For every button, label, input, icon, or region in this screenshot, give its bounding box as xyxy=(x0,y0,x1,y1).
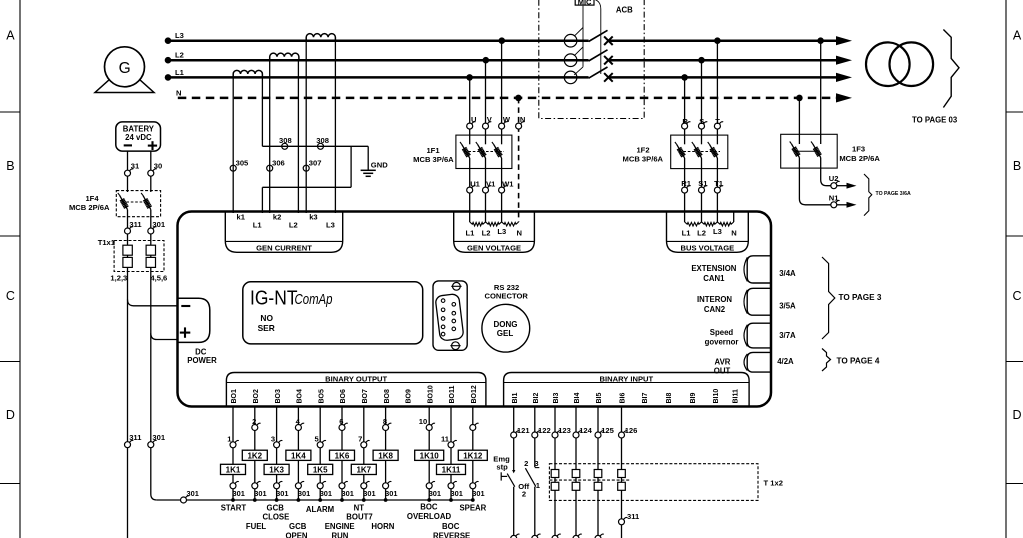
terminal 126 xyxy=(619,426,638,438)
junction on 301 bus at BO10 xyxy=(427,498,431,502)
svg-text:8: 8 xyxy=(383,417,387,426)
terminal 301 under 1K10 xyxy=(426,481,441,498)
wire BO11 to relay 1K11 xyxy=(450,407,452,501)
svg-text:2: 2 xyxy=(252,417,256,426)
svg-text:L3: L3 xyxy=(713,227,722,236)
circuit breaker 1F4 MCB 2P/6A xyxy=(69,191,161,217)
relay coil 1K1 xyxy=(221,464,246,474)
contact terminal 5 on BO5 xyxy=(314,435,326,448)
svg-text:U2: U2 xyxy=(829,174,839,183)
AVR OUT port xyxy=(714,352,771,375)
1F1 mechanical link xyxy=(464,151,504,153)
svg-text:BO1: BO1 xyxy=(231,389,238,404)
1F4 pole b xyxy=(143,195,151,209)
wire BO1 to relay 1K1 xyxy=(232,407,234,501)
wire BO8 to relay 1K8 xyxy=(385,407,387,501)
brace to page 4 xyxy=(822,349,880,372)
emergency stop switch Emg stp on BI1 xyxy=(493,438,515,536)
wire BI3 down xyxy=(554,438,556,536)
svg-text:301: 301 xyxy=(152,220,165,229)
svg-text:301: 301 xyxy=(342,489,354,498)
1F2 pole T xyxy=(710,144,718,158)
svg-text:CLOSE: CLOSE xyxy=(262,513,289,522)
svg-text:EXTENSION: EXTENSION xyxy=(691,264,736,273)
terminal 301 under 1K12 xyxy=(470,481,485,498)
svg-text:L1: L1 xyxy=(175,68,185,77)
wire S from L2 xyxy=(701,60,703,144)
junction on 301 bus at BO6 xyxy=(340,498,344,502)
terminal block T 1x2 xyxy=(549,464,783,501)
wire BI2 input xyxy=(534,407,536,433)
contact terminal 2 on BO2 xyxy=(252,417,261,430)
svg-text:CONECTOR: CONECTOR xyxy=(485,291,529,300)
DONG GEL dongle xyxy=(482,304,530,352)
svg-text:ENGINE: ENGINE xyxy=(325,522,355,531)
svg-text:301: 301 xyxy=(429,489,441,498)
svg-text:TO PAGE 3: TO PAGE 3 xyxy=(839,293,882,302)
wire BO6 to relay 1K6 xyxy=(341,407,343,501)
svg-text:k1: k1 xyxy=(237,212,246,221)
terminal 121 xyxy=(511,426,531,438)
wire N1 out xyxy=(799,158,830,205)
svg-text:BO5: BO5 xyxy=(318,389,325,404)
svg-text:1K7: 1K7 xyxy=(356,466,371,475)
terminal W1 xyxy=(499,179,515,193)
wire BO2 to relay 1K2 xyxy=(254,407,256,501)
junction on 301 bus at BO3 xyxy=(275,498,279,502)
wire N (neutral, dashed) xyxy=(176,88,852,102)
svg-text:301: 301 xyxy=(472,489,484,498)
svg-text:4/2A: 4/2A xyxy=(777,357,794,366)
svg-text:301: 301 xyxy=(298,489,310,498)
wire BO4 to relay 1K4 xyxy=(297,407,299,501)
svg-text:W: W xyxy=(503,115,511,124)
svg-text:BOC: BOC xyxy=(420,503,438,512)
contact terminal 1 on BO1 xyxy=(227,435,239,448)
svg-text:306: 306 xyxy=(272,158,285,167)
wire W1 xyxy=(501,158,503,222)
1F3 pole b xyxy=(813,144,821,158)
svg-text:301: 301 xyxy=(276,489,288,498)
contact terminal 6 on BO6 xyxy=(339,417,348,430)
svg-text:1K3: 1K3 xyxy=(269,466,284,475)
svg-text:A: A xyxy=(1013,29,1022,43)
wire U from L1 xyxy=(469,77,471,144)
svg-text:T 1x2: T 1x2 xyxy=(764,479,783,488)
svg-text:REVERSE: REVERSE xyxy=(433,531,470,538)
junction on 301 bus at BO12 xyxy=(471,498,475,502)
svg-text:R: R xyxy=(682,117,688,126)
svg-text:OUT: OUT xyxy=(714,366,731,375)
svg-text:NO: NO xyxy=(260,313,273,323)
svg-text:4,5,6: 4,5,6 xyxy=(150,274,167,283)
terminal at bottom of BI4 xyxy=(573,535,579,538)
wire L3 xyxy=(165,31,852,45)
svg-text:301: 301 xyxy=(385,489,397,498)
svg-text:311: 311 xyxy=(129,220,142,229)
ACB mechanism linkage xyxy=(574,0,601,75)
wire BO5 to relay 1K5 xyxy=(319,407,321,501)
terminal 308 (b) xyxy=(316,136,329,149)
svg-text:U: U xyxy=(471,115,477,124)
brace to page 3 xyxy=(822,257,882,339)
BUS VOLTAGE measurement network xyxy=(682,212,737,238)
svg-text:BI3: BI3 xyxy=(553,393,560,404)
1F1 pole W xyxy=(494,144,502,158)
svg-text:126: 126 xyxy=(625,426,638,435)
svg-text:BOC: BOC xyxy=(442,522,460,531)
terminal 125 xyxy=(595,426,615,438)
svg-text:BINARY OUTPUT: BINARY OUTPUT xyxy=(325,375,387,384)
svg-text:L2: L2 xyxy=(482,228,491,237)
svg-text:308: 308 xyxy=(279,136,292,145)
svg-text:L2: L2 xyxy=(289,221,298,230)
wire U1 xyxy=(469,158,471,222)
svg-text:BO11: BO11 xyxy=(449,385,456,403)
terminal 301 under 1K1 xyxy=(230,481,245,498)
svg-text:BO10: BO10 xyxy=(427,385,434,403)
ACB pole on L1 xyxy=(564,67,612,84)
terminal block T1x1 xyxy=(98,238,168,283)
svg-text:1K11: 1K11 xyxy=(442,466,461,475)
junction on 301 bus at BO1 xyxy=(231,498,235,502)
svg-text:301: 301 xyxy=(187,489,199,498)
BUS VOLTAGE terminal block xyxy=(667,212,749,253)
T1x1 contacts a xyxy=(123,245,132,267)
wire to DC power plus xyxy=(151,333,178,339)
junction on 301 bus at BO7 xyxy=(362,498,366,502)
GEN VOLTAGE terminal block xyxy=(454,212,535,253)
svg-text:L2: L2 xyxy=(175,51,184,60)
svg-text:307: 307 xyxy=(309,158,322,167)
svg-text:BI7: BI7 xyxy=(642,393,649,404)
svg-text:3/4A: 3/4A xyxy=(779,269,796,278)
svg-text:BO4: BO4 xyxy=(297,389,304,404)
svg-text:MCB 3P/6A: MCB 3P/6A xyxy=(623,155,664,164)
svg-text:governor: governor xyxy=(705,338,739,347)
svg-text:L3: L3 xyxy=(497,227,506,236)
junction on 301 bus at BO11 xyxy=(449,498,453,502)
wire BI6 input xyxy=(621,407,623,433)
wire U2 out xyxy=(821,158,831,186)
terminal 301 under 1K6 xyxy=(339,481,354,498)
svg-text:L1: L1 xyxy=(253,221,263,230)
wire 311 vertical run xyxy=(127,210,129,538)
svg-text:1K6: 1K6 xyxy=(335,452,350,461)
1F3 mechanical link xyxy=(794,150,818,152)
svg-text:A: A xyxy=(6,29,15,43)
wire N drop to gen voltage (dashed) xyxy=(518,98,520,222)
terminal 301 on bus xyxy=(181,489,199,503)
relay coil 1K3 xyxy=(264,464,289,474)
svg-text:START: START xyxy=(221,504,247,513)
1F2 mechanical link xyxy=(679,151,720,153)
svg-text:2: 2 xyxy=(524,459,528,468)
svg-text:V1: V1 xyxy=(486,179,496,188)
terminal 311 (bottom) xyxy=(125,433,143,448)
svg-text:1K4: 1K4 xyxy=(291,452,306,461)
svg-text:L2: L2 xyxy=(697,228,706,237)
svg-text:W1: W1 xyxy=(502,179,514,188)
svg-text:BO8: BO8 xyxy=(384,389,391,404)
terminal at bottom of BI1 xyxy=(511,535,517,538)
terminal 306 xyxy=(267,158,285,171)
svg-text:30: 30 xyxy=(154,162,162,171)
svg-text:311: 311 xyxy=(627,512,640,521)
wire R from L1 xyxy=(684,77,686,144)
relay coil 1K12 xyxy=(458,450,487,460)
relay coil 1K7 xyxy=(351,464,376,474)
svg-text:NT: NT xyxy=(354,504,365,513)
terminal 301 (bottom) xyxy=(148,433,166,448)
contact terminal 11 on BO11 xyxy=(441,435,457,448)
svg-text:6: 6 xyxy=(339,417,343,426)
wire S1 xyxy=(701,158,703,222)
MIC actuator box xyxy=(575,0,594,6)
relay coil 1K8 xyxy=(373,450,398,460)
terminal S1 xyxy=(698,179,708,193)
svg-text:BI2: BI2 xyxy=(533,393,540,404)
terminal 307 xyxy=(303,158,321,171)
junction on 301 bus at BO2 xyxy=(253,498,257,502)
EXTENSION CAN1 port xyxy=(691,256,771,283)
terminal 311 (top) xyxy=(125,220,143,234)
svg-text:301: 301 xyxy=(152,433,165,442)
terminal 301 under 1K3 xyxy=(274,481,289,498)
svg-text:2: 2 xyxy=(522,489,526,498)
terminal 301 under 1K4 xyxy=(295,481,310,498)
terminal 301 under 1K2 xyxy=(252,481,267,498)
terminal W xyxy=(499,115,511,129)
wire T from L3 xyxy=(716,41,718,145)
svg-text:GCB: GCB xyxy=(267,504,285,513)
svg-text:BO7: BO7 xyxy=(362,389,369,404)
svg-text:GCB: GCB xyxy=(289,522,307,531)
wire T1 xyxy=(716,158,718,222)
terminal 301 (top) xyxy=(148,220,166,234)
BINARY INPUT terminal block xyxy=(504,373,749,407)
contact terminal 8 on BO8 xyxy=(383,417,392,430)
terminal U xyxy=(467,115,477,129)
wire to DC power minus xyxy=(128,300,178,306)
wire V1 xyxy=(485,158,487,222)
terminal 301 under 1K11 xyxy=(448,481,463,498)
svg-text:FUEL: FUEL xyxy=(246,522,267,531)
svg-text:HORN: HORN xyxy=(371,522,394,531)
svg-text:BI8: BI8 xyxy=(666,393,673,404)
brace to page 03 xyxy=(912,30,959,125)
svg-text:L3: L3 xyxy=(175,31,184,40)
terminal at bottom of BI5 xyxy=(595,535,601,538)
svg-text:BI10: BI10 xyxy=(713,389,720,404)
terminal 31 xyxy=(125,162,141,177)
relay coil 1K11 xyxy=(437,464,466,474)
svg-text:1K8: 1K8 xyxy=(378,452,393,461)
svg-text:GND: GND xyxy=(371,160,388,169)
svg-text:N: N xyxy=(520,115,525,124)
GEN CURRENT terminal block xyxy=(225,212,342,253)
BINARY OUTPUT terminal block xyxy=(226,373,486,407)
svg-text:BI5: BI5 xyxy=(596,393,603,404)
svg-text:L3: L3 xyxy=(326,221,335,230)
svg-text:301: 301 xyxy=(451,489,463,498)
svg-text:3/7A: 3/7A xyxy=(779,331,796,340)
svg-text:3: 3 xyxy=(271,435,275,444)
svg-text:CAN2: CAN2 xyxy=(704,305,726,314)
svg-text:BO6: BO6 xyxy=(340,389,347,404)
RS232 DB9 connector xyxy=(433,281,467,350)
contact terminal 12 on BO12 xyxy=(470,423,479,430)
wire 31 (battery minus) xyxy=(127,151,129,192)
svg-text:L1: L1 xyxy=(465,228,475,237)
IG-NT ComAp label box xyxy=(243,282,423,344)
1F2 pole S xyxy=(694,144,702,158)
DC POWER connector xyxy=(178,298,218,365)
circuit breaker 1F3 MCB 2P/6A xyxy=(781,134,881,168)
wire W from L3 xyxy=(501,41,503,145)
svg-text:TO PAGE 3/6A: TO PAGE 3/6A xyxy=(876,191,912,197)
battery BATERY 24 vDC xyxy=(116,122,161,151)
svg-text:3/5A: 3/5A xyxy=(779,302,796,311)
junction on 301 bus at BO5 xyxy=(318,498,322,502)
svg-text:1F2: 1F2 xyxy=(636,145,649,154)
svg-text:DONG: DONG xyxy=(494,320,518,329)
T1x2 contacts on BI5 xyxy=(594,470,602,491)
wire BO12 to relay 1K12 xyxy=(472,407,474,501)
svg-text:CAN1: CAN1 xyxy=(703,274,725,283)
wire BI6 down xyxy=(621,438,623,538)
svg-text:1K12: 1K12 xyxy=(463,452,483,461)
1F4 pole a xyxy=(120,195,128,209)
INTERON CAN2 port xyxy=(697,288,771,315)
wire BI4 input xyxy=(575,407,577,433)
svg-text:1K10: 1K10 xyxy=(420,452,440,461)
ACB pole on L2 xyxy=(564,50,612,67)
wire BI5 down xyxy=(597,438,599,536)
svg-text:OPEN: OPEN xyxy=(285,531,307,538)
svg-text:D: D xyxy=(1012,408,1021,422)
wire BO7 to relay 1K7 xyxy=(363,407,365,501)
terminal 305 xyxy=(230,158,249,171)
svg-text:3: 3 xyxy=(534,459,538,468)
svg-text:BI11: BI11 xyxy=(733,389,740,404)
svg-text:301: 301 xyxy=(363,489,375,498)
terminal S xyxy=(699,117,708,129)
relay coil 1K10 xyxy=(415,450,444,460)
svg-text:BATERY: BATERY xyxy=(123,125,155,134)
T1x2 contacts on BI6 xyxy=(618,470,626,491)
svg-text:SPEAR: SPEAR xyxy=(459,504,486,513)
svg-text:121: 121 xyxy=(517,426,530,435)
contact terminal 7 on BO7 xyxy=(358,435,370,448)
svg-text:BO2: BO2 xyxy=(253,389,260,404)
brace to page 3/6A xyxy=(864,174,911,216)
svg-text:IG-NT: IG-NT xyxy=(250,287,298,310)
wire BI3 input xyxy=(554,407,556,433)
1F1 pole V xyxy=(478,144,486,158)
terminal at bottom of BI3 xyxy=(552,535,558,538)
terminal 301 under 1K5 xyxy=(317,481,332,498)
svg-text:stp: stp xyxy=(496,462,508,471)
T1x2 contacts on BI4 xyxy=(572,470,580,491)
svg-text:GEN VOLTAGE: GEN VOLTAGE xyxy=(467,244,521,253)
relay coil 1K5 xyxy=(308,464,333,474)
svg-text:BO3: BO3 xyxy=(275,389,282,404)
svg-text:ComAp: ComAp xyxy=(295,291,333,308)
svg-text:D: D xyxy=(6,408,15,422)
svg-text:GEN CURRENT: GEN CURRENT xyxy=(256,244,312,253)
svg-text:TO PAGE 4: TO PAGE 4 xyxy=(837,357,880,366)
terminal N1 with arrow xyxy=(829,193,857,208)
svg-text:MCB 3P/6A: MCB 3P/6A xyxy=(413,155,454,164)
svg-text:BI1: BI1 xyxy=(512,393,519,404)
svg-text:B: B xyxy=(6,159,14,173)
1F1 pole U xyxy=(462,144,470,158)
contact terminal 10 on BO10 xyxy=(419,417,435,430)
controller IG-NT box xyxy=(178,212,772,407)
transformer T1 xyxy=(866,42,933,86)
wire BI1 input xyxy=(513,407,515,433)
svg-text:S1: S1 xyxy=(698,179,708,188)
wire L2 xyxy=(165,51,852,65)
svg-text:ALARM: ALARM xyxy=(306,505,334,514)
svg-text:N: N xyxy=(731,228,736,237)
svg-text:11: 11 xyxy=(441,435,450,444)
terminal 30 xyxy=(148,162,162,177)
svg-text:C: C xyxy=(6,289,15,303)
svg-text:1K1: 1K1 xyxy=(226,466,241,475)
contact terminal 4 on BO4 xyxy=(295,417,304,430)
svg-text:301: 301 xyxy=(254,489,266,498)
relay coil 1K4 xyxy=(286,450,311,460)
generator G xyxy=(95,47,154,93)
Speed governor port xyxy=(705,323,771,348)
terminal 124 xyxy=(573,426,593,438)
svg-text:RUN: RUN xyxy=(332,531,349,538)
terminal U1 xyxy=(467,179,481,193)
Off 2 selector switch on BI2 xyxy=(518,438,541,536)
T1x2 contacts on BI3 xyxy=(551,470,559,491)
svg-text:7: 7 xyxy=(358,435,362,444)
svg-text:BI6: BI6 xyxy=(620,393,627,404)
CT secondary common bus (wire 308) xyxy=(262,146,368,213)
svg-text:BINARY INPUT: BINARY INPUT xyxy=(600,375,654,384)
svg-text:BO12: BO12 xyxy=(471,385,478,403)
svg-text:T1x1: T1x1 xyxy=(98,238,116,247)
circuit breaker 1F2 MCB 3P/6A xyxy=(623,135,728,169)
ACB pole on L3 xyxy=(564,30,612,47)
svg-text:1,2,3: 1,2,3 xyxy=(110,274,127,283)
terminal T xyxy=(714,117,723,129)
terminal N xyxy=(516,115,526,129)
svg-text:GEL: GEL xyxy=(497,329,514,338)
svg-text:C: C xyxy=(1012,289,1021,303)
wire from N to 1F3 xyxy=(798,98,800,144)
svg-text:125: 125 xyxy=(601,426,614,435)
terminal V xyxy=(483,115,493,129)
terminal 301 under 1K8 xyxy=(383,481,398,498)
svg-text:BI4: BI4 xyxy=(574,393,581,404)
svg-text:MIC: MIC xyxy=(578,0,592,6)
1F2 pole R xyxy=(677,144,685,158)
svg-text:1F3: 1F3 xyxy=(852,145,865,154)
svg-text:31: 31 xyxy=(131,162,140,171)
wire 301 vertical run xyxy=(151,210,157,500)
svg-text:U1: U1 xyxy=(470,179,480,188)
T1x1 contacts b xyxy=(146,245,155,267)
1F4 mechanical link xyxy=(122,201,148,203)
wire V from L2 xyxy=(485,60,487,144)
